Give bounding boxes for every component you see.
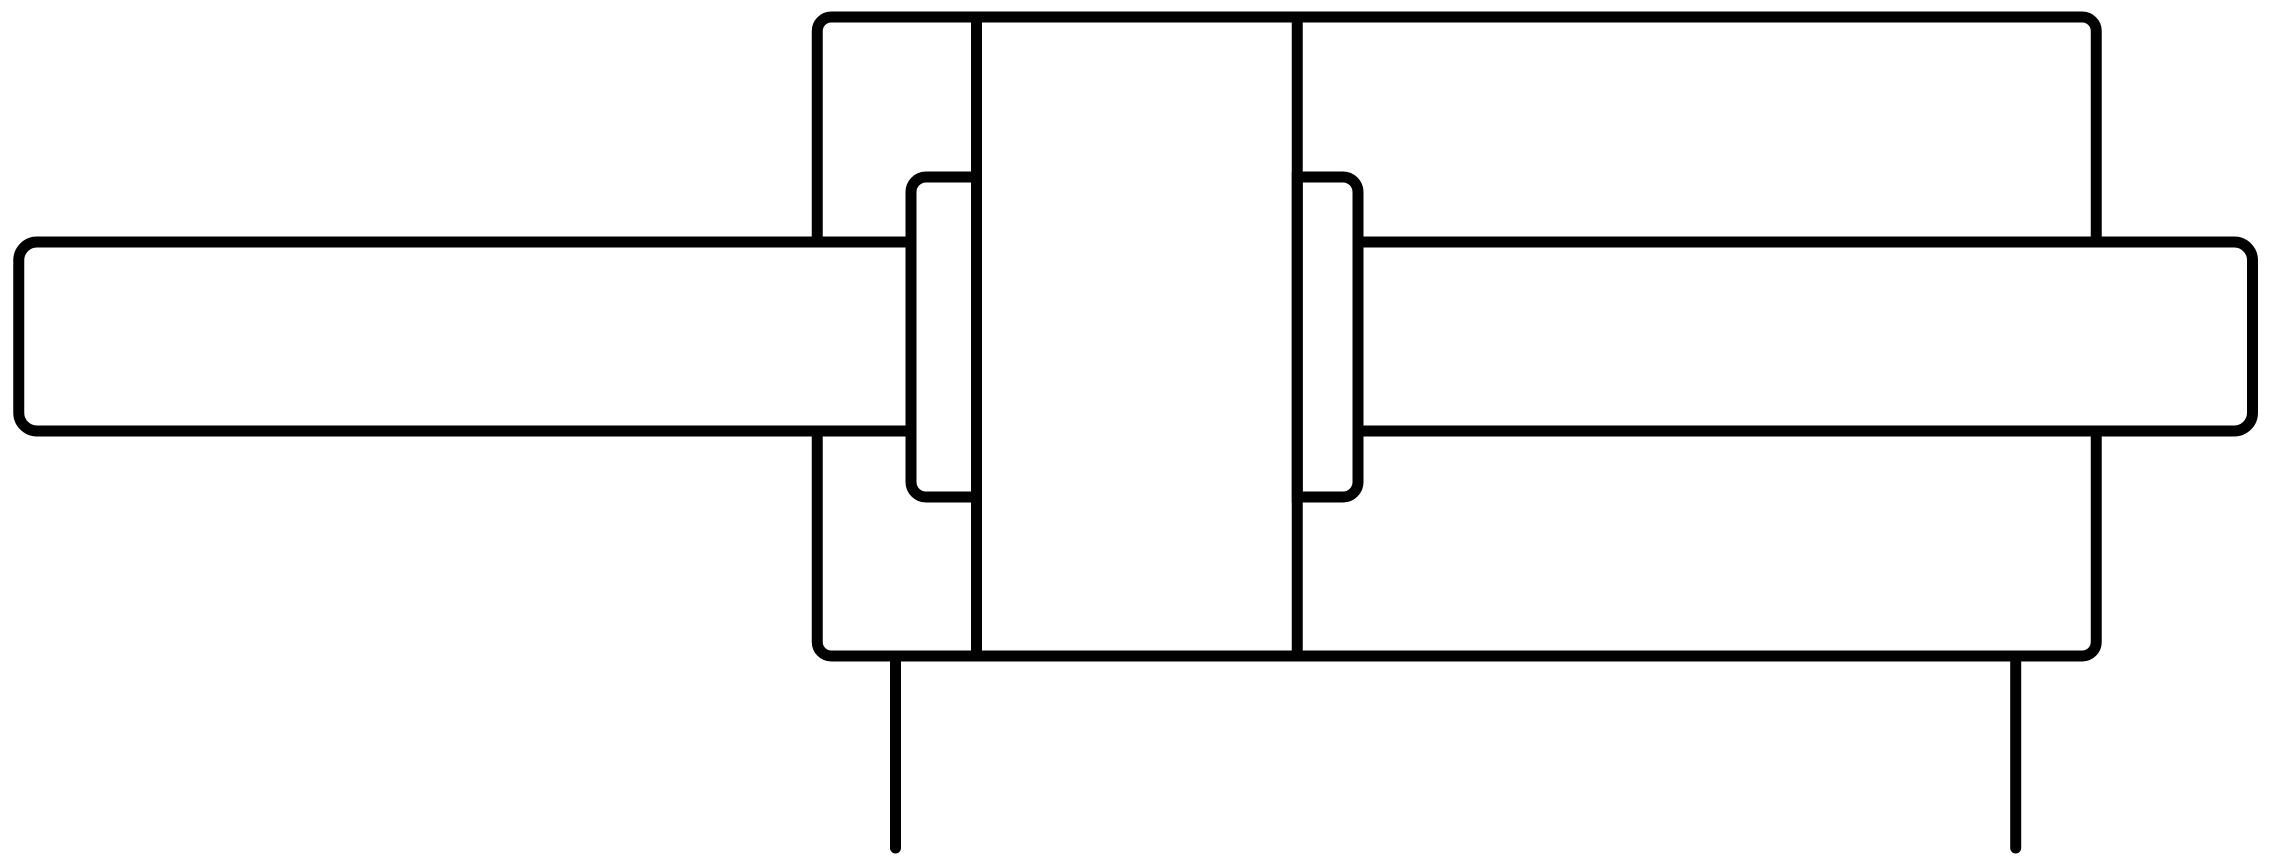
cylinder body [817,17,2096,656]
cushion seal (right of piston) [1297,177,1358,497]
cushion seal (left of piston) [911,177,977,497]
piston rod (right, through-rod) [1358,242,2253,431]
port line (right) [2010,656,2021,848]
piston rod (left, through-rod) [19,242,911,431]
piston right face [1292,17,1303,656]
port line (left) [890,656,901,848]
piston left face [971,17,982,656]
